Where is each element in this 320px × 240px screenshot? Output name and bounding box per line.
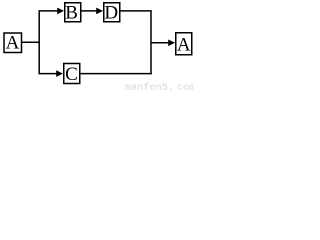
wire from B to D <box>81 10 98 12</box>
svg-text:D: D <box>104 2 118 23</box>
svg-text:C: C <box>65 64 78 85</box>
block A2 (right output box with label A) <box>176 33 192 56</box>
block A1 (left input box with label A) <box>4 33 22 54</box>
right junction vertical wire <box>150 11 152 74</box>
arrowhead into D <box>96 8 103 15</box>
left junction vertical wire <box>38 11 40 74</box>
wire from D to right junction <box>120 10 152 12</box>
arrowhead into A2 <box>168 40 175 47</box>
block C <box>64 64 80 85</box>
svg-text:A: A <box>6 33 20 54</box>
block B <box>65 2 81 23</box>
block D <box>104 2 120 23</box>
arrowhead into C <box>56 70 63 77</box>
svg-text:manfen5.com: manfen5.com <box>125 82 194 91</box>
wire from left junction to C <box>39 73 58 75</box>
svg-text:B: B <box>65 2 78 23</box>
svg-text:A: A <box>177 35 191 56</box>
output wire from right junction to A2 <box>151 42 170 44</box>
wire from C to right junction <box>80 73 152 75</box>
wire from left junction to B <box>39 10 59 12</box>
wire from A1 to left junction <box>22 41 40 43</box>
arrowhead into B <box>57 8 64 15</box>
